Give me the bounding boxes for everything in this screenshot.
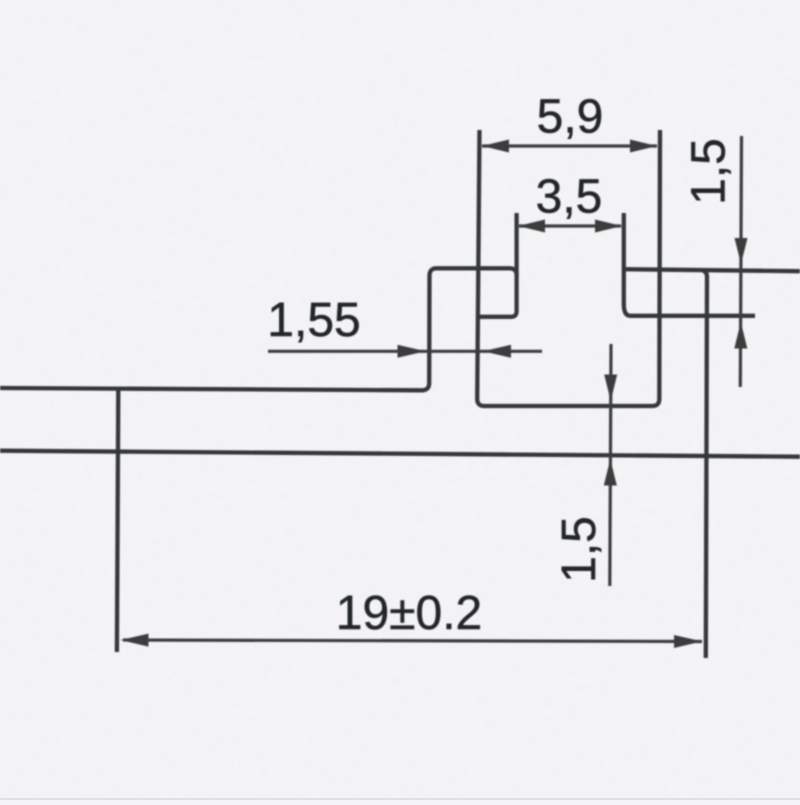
svg-text:19±0.2: 19±0.2 bbox=[336, 587, 482, 640]
wire slot left wall extension up bbox=[514, 213, 518, 276]
node dim 5,9 line with outward arrows bbox=[482, 144, 657, 147]
svg-text:1,5: 1,5 bbox=[683, 138, 736, 205]
wire U-channel groove (left wall, bottom, right wall) bbox=[477, 130, 660, 406]
svg-text:1,55: 1,55 bbox=[267, 294, 360, 347]
node bottom scan edge bbox=[0, 798, 800, 800]
node dim 19±0.2 line with outward arrows bbox=[123, 640, 702, 642]
wire right bump outer wall bbox=[701, 270, 707, 658]
node dim 3,5 line with outward arrows bbox=[519, 224, 621, 227]
wire base top-left surface and left bump outline with slot hook bbox=[0, 268, 517, 390]
wire left step vertical bbox=[117, 389, 118, 652]
node dim 1,5 bottom vertical with arrows bbox=[610, 344, 611, 586]
node dim 1,5 right vertical with arrows to surfaces bbox=[740, 136, 741, 387]
wire right bump top surface extended to edge bbox=[624, 269, 800, 271]
wire right slot wall with hook to the right bbox=[624, 213, 755, 316]
svg-text:5,9: 5,9 bbox=[537, 91, 604, 144]
node dim 1,55 leader with inward-facing arrows bbox=[268, 350, 542, 353]
svg-text:1,5: 1,5 bbox=[553, 516, 606, 583]
svg-text:3,5: 3,5 bbox=[536, 171, 603, 224]
wire base bottom line full width bbox=[0, 451, 800, 457]
